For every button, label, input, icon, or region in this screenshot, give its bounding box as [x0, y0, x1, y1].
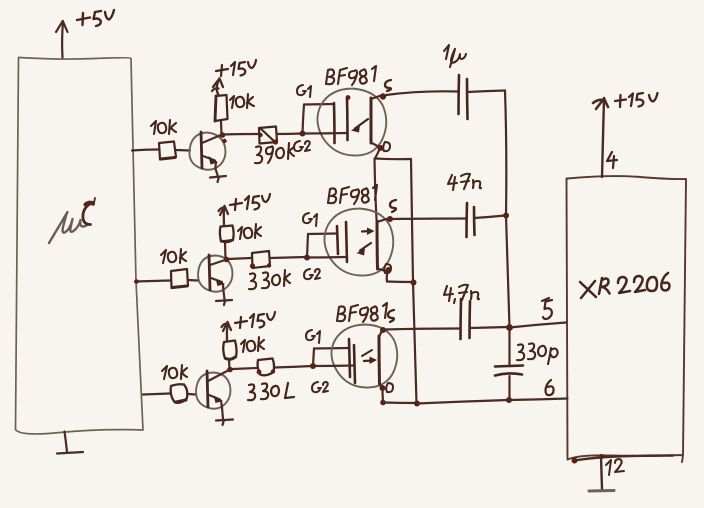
terminal label S (M3): [388, 310, 394, 322]
junction dot pin12 stem: [599, 454, 604, 459]
capacitor C4 330p stem bottom: [508, 376, 510, 400]
terminal label S (M1): [385, 80, 391, 91]
wire G1 entry (channel 1): [304, 103, 334, 106]
wire R4 to Q2 base: [188, 279, 198, 282]
pin label 4: [607, 152, 617, 168]
M3 gate2 bar: [354, 345, 355, 383]
ground at Q2 emitter: [216, 291, 232, 305]
value label 4,7n (C3): [444, 285, 479, 303]
pin label 5: [542, 298, 552, 319]
pin label 12: [606, 459, 624, 475]
microcontroller block U_uC outline: [16, 58, 144, 434]
wire G1 riser (channel 1): [303, 105, 305, 134]
transistor Q2 circle: [198, 256, 232, 292]
value label 390k (R3): [255, 143, 294, 163]
Q1 emitter lead: [214, 162, 217, 169]
wire M2 drain down: [387, 270, 389, 282]
node G junction dot (channel 2): [304, 255, 310, 261]
M1 substrate arrow: [355, 119, 368, 129]
M2 channel bar: [376, 221, 380, 269]
wire node to R2 pull-up: [220, 121, 223, 135]
ground at Q3 emitter: [216, 408, 233, 426]
Q1 collector: [202, 135, 222, 144]
ground under µC: [57, 432, 83, 454]
wire M2 drain to bus: [387, 280, 413, 283]
part label BF981 (M1): [326, 66, 376, 85]
wire R6 to gate junction: [270, 257, 306, 258]
value label 10k (R8): [241, 337, 264, 352]
value label 10k (R2): [230, 94, 254, 108]
terminal label D (M3): [386, 383, 393, 392]
M1 channel bar: [370, 98, 373, 143]
wire G1 entry (channel 3): [314, 347, 349, 350]
wire G1 riser (channel 3): [313, 349, 314, 367]
wire R1 to Q1 base: [176, 149, 190, 152]
wire node to R5 pull-up: [224, 242, 227, 260]
pin label G1 (M2): [303, 213, 317, 226]
M3 drain link: [380, 383, 383, 388]
M3 channel bar: [378, 336, 382, 384]
pin 12 lead at bottom of XR2206: [574, 456, 673, 461]
M2 gate1 bar: [337, 226, 338, 254]
value label 10k (R5): [238, 224, 261, 239]
wire µC to R4 (channel 2 input): [135, 281, 170, 282]
capacitor C2 47n: [467, 203, 475, 237]
pin 4 wire of XR2206: [602, 98, 604, 177]
pin label G2 (M1): [294, 141, 310, 151]
MOSFET M2 BF981 circle: [324, 209, 393, 276]
M3 gate1 bar: [349, 339, 350, 377]
power +5V arrow above µC: [56, 21, 68, 58]
node µC edge dot (channel 2): [134, 279, 139, 284]
value label 10k (R7): [162, 365, 187, 379]
node 47n junction dot: [503, 213, 509, 219]
label µC: [49, 198, 95, 243]
wire C2cap to right bus: [475, 216, 506, 219]
wire node to R3: [224, 133, 258, 136]
transistor Q3 circle: [196, 373, 230, 409]
MOSFET M3 BF981 circle: [331, 325, 397, 388]
M1 drain link: [371, 143, 380, 148]
node 5 junction dot: [506, 324, 513, 331]
wire C1 to right bus corner: [468, 91, 506, 93]
wire G2 entry (channel 2): [307, 256, 346, 259]
resistor R2 10k pull-up: [215, 95, 228, 121]
node C3 junction dot: [227, 367, 233, 373]
pin label G1 (M1): [297, 85, 311, 97]
value label 10k (R4): [161, 249, 186, 263]
node 6 junction dot: [506, 397, 512, 403]
Q3 emitter lead: [221, 401, 222, 408]
terminal label D (M2): [384, 264, 391, 273]
node M3 drain dot: [380, 400, 386, 406]
M1 gate1 bar: [333, 103, 336, 143]
label XR 2206: [580, 273, 670, 298]
node C2 junction dot: [224, 257, 230, 263]
M3 substrate arrow diagonal: [362, 350, 372, 356]
wire node to R8 pull-up: [228, 360, 231, 370]
wire node to R9: [233, 368, 257, 369]
terminal label S (M2): [390, 200, 396, 212]
Q1 emitter with arrow: [203, 156, 215, 161]
label +15V at pin 4: [615, 93, 658, 107]
IC XR 2206 outline: [567, 176, 687, 462]
M2 gate2 bar: [346, 222, 347, 262]
power +15V arrow at pin 4: [593, 99, 608, 110]
value label 330L (R9): [248, 383, 294, 400]
M1 gate2 bar top dot: [346, 95, 351, 100]
part label BF981 (M2): [328, 185, 377, 204]
part label BF981 (M3): [337, 303, 387, 322]
wire drain bus vertical lower: [413, 282, 417, 403]
wire bottom bus left segment: [383, 401, 417, 404]
wire right bus vertical top segment: [505, 91, 506, 216]
transistor Q1 circle: [189, 133, 225, 170]
node G junction dot (channel 1): [300, 131, 306, 137]
resistor R3 390k series: [259, 127, 277, 144]
M2 substrate arrow horizontal: [362, 230, 370, 233]
resistor R9 330 series: [258, 359, 275, 376]
node G junction dot (channel 3): [310, 363, 316, 369]
ground at pin 12: [589, 457, 614, 492]
wire R3 to gate junction: [277, 132, 302, 135]
capacitor C3 4.7n: [461, 299, 471, 339]
capacitor C4 330p stem top: [508, 328, 510, 365]
Q2 base bar: [209, 255, 210, 290]
Q2 emitter with arrow: [211, 278, 222, 282]
ground at Q1 emitter: [210, 169, 226, 182]
node drain bus junction dot (M2): [411, 280, 417, 286]
Q3 emitter with arrow: [209, 395, 220, 400]
M2 substrate arrow diagonal: [360, 243, 371, 251]
capacitor C4 330p plates: [495, 366, 523, 376]
wire M1 source to C1: [386, 91, 458, 95]
terminal label D (M1): [383, 142, 390, 151]
wire M3 drain down: [381, 388, 384, 402]
resistor R6 330k series: [252, 251, 270, 268]
resistor R4 10k (channel 2 input): [171, 269, 188, 288]
wire G2 entry (channel 3): [313, 364, 354, 367]
wire M3 source to C3cap: [384, 329, 459, 330]
wire bottom bus middle segment: [417, 400, 508, 404]
power +15V arrow (channel 3): [222, 322, 232, 341]
node bottom bus junction dot: [414, 401, 420, 407]
MOSFET M1 BF981 circle: [317, 89, 386, 156]
Q2 emitter lead: [222, 284, 225, 291]
wire M1 drain down: [375, 148, 380, 159]
wire node to R6: [228, 258, 251, 259]
resistor R1 10k (channel 1 input): [159, 142, 176, 160]
wire G1 riser (channel 2): [307, 234, 308, 258]
M1 gate2 bar: [346, 98, 349, 140]
wire drain bus vertical upper: [411, 159, 413, 282]
value label 330p (C4): [517, 343, 558, 364]
wire µC to R1 (channel 1 input): [132, 150, 158, 151]
wire G2 entry (channel 1): [303, 132, 348, 135]
pin label 6: [546, 380, 554, 395]
power +15V arrow (channel 2): [219, 206, 229, 225]
resistor R7 10k (channel 3 input): [171, 384, 188, 403]
Q3 collector: [208, 370, 230, 382]
power +15V arrow (channel 1): [212, 79, 223, 96]
Q3 base bar: [207, 371, 208, 407]
wire G1 entry (channel 2): [308, 232, 337, 235]
wire C3cap to node 5: [470, 327, 508, 328]
junction dot pin12 left: [572, 458, 578, 464]
M3 source link: [379, 331, 382, 338]
wire node 6 to XR2206 pin 6: [509, 399, 568, 401]
wire drain stub down to S2 junction: [375, 159, 377, 220]
M3 substrate arrow: [364, 359, 372, 362]
M1 source link: [371, 96, 381, 100]
wire right bus vertical middle segment: [506, 216, 510, 328]
label +15V (channel 2): [230, 194, 270, 210]
value label 330k (R6): [249, 270, 290, 289]
Q1 base bar: [201, 132, 202, 168]
value label 47n (C2): [448, 174, 481, 190]
value label 1µ (C1): [444, 45, 466, 67]
M2 source link: [377, 219, 388, 223]
pin label G2 (M3): [312, 382, 328, 392]
wire R7 to Q3 base: [188, 393, 196, 396]
label +15V (channel 1): [216, 60, 256, 76]
value label 10k (R1): [151, 120, 176, 134]
pin label G2 (M2): [304, 269, 320, 279]
resistor R5 10k pull-up: [220, 226, 234, 242]
label +15V (channel 3): [235, 312, 275, 328]
node C1 junction dot: [220, 132, 226, 138]
wire µC to R7 (channel 3 input): [143, 394, 170, 395]
wire node 5 to XR2206 pin 5: [510, 323, 567, 328]
Q2 collector: [210, 260, 227, 266]
wire M2 source to C2cap: [392, 217, 466, 220]
pin label G1 (M3): [306, 330, 320, 343]
wire M1 drain right: [375, 157, 411, 160]
M2 drain link: [378, 269, 388, 272]
resistor R8 10k pull-up: [223, 341, 236, 360]
capacitor C1 1µ: [459, 75, 468, 119]
wire R9 to gate junction: [274, 366, 312, 368]
label +5V: [77, 10, 114, 26]
